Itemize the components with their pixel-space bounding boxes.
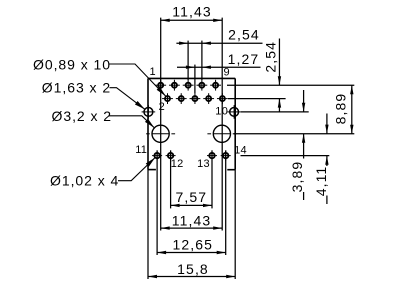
mounting hole left Ø3,2	[146, 125, 175, 142]
extension line mounting holes to right dims (y=133.8)	[234, 133, 355, 135]
extension line row2 to right dims (y=98.6)	[228, 98, 286, 100]
dimension 7,57 left arrow	[171, 204, 180, 207]
shield hole right Ø1,63	[227, 105, 241, 119]
dimension 12,65 left arrow	[157, 251, 166, 254]
dimension 12,65 line	[157, 252, 226, 254]
svg-text:12,65: 12,65	[173, 237, 214, 253]
pin hole 14 Ø1,02	[221, 151, 231, 161]
label Ø1,63 x 2 leader	[110, 88, 146, 110]
label Ø3,2 x 2 leader arrowhead	[145, 119, 154, 128]
svg-text:12: 12	[171, 158, 184, 170]
pin hole row2 #5 (pin 10) Ø0,89	[217, 93, 228, 104]
extension line body right edge down (x=235.2)	[234, 170, 236, 279]
extension line row1 pin3 (x=188.1)	[187, 41, 189, 80]
label Ø0,89 x 10 leader arrowhead	[157, 87, 166, 96]
extension line pin 12 down (x=170.6)	[170, 150, 172, 208]
dimension 12,65 right arrow	[217, 251, 226, 254]
dimension 2,54 left arrow	[179, 42, 188, 45]
dimension 11,43 bottom line	[161, 227, 223, 229]
dimension 1,27 line	[177, 66, 261, 68]
label Ø1,63 x 2 leader arrowhead	[135, 101, 145, 109]
pin hole row2 #4 (pin 8) Ø0,89	[203, 93, 214, 104]
pin hole row2 #2 (pin 4) Ø0,89	[176, 93, 187, 104]
dimension 11,43 top left arrow	[161, 19, 170, 22]
extension line pin 13 down (x=212.0)	[211, 150, 213, 208]
svg-text:3,89: 3,89	[289, 161, 305, 193]
shield hole left Ø1,63	[142, 105, 156, 119]
dimension 1,27 left arrow	[186, 66, 195, 69]
pin hole 11 Ø1,02	[152, 151, 162, 161]
svg-text:9: 9	[223, 66, 229, 78]
connector body outline bottom-right step	[227, 169, 235, 171]
pin hole 13 Ø1,02	[207, 151, 217, 161]
dimension 2,54 right arrow	[202, 42, 211, 45]
extension line pin1 / left mounting hole (x=160.7)	[160, 18, 162, 231]
dimension 4,11 lower arrow line	[326, 156, 328, 166]
extension line row2 pin (x=194.9)	[194, 65, 196, 94]
dimension 11,43 top right arrow	[213, 19, 222, 22]
dimension 3,89 upper arrow	[302, 103, 305, 112]
svg-text:11: 11	[135, 144, 147, 156]
dimension 8,89 top arrow	[350, 85, 353, 94]
dimension 2,54 line	[176, 42, 262, 44]
extension line pin10 / right mounting hole (x=222.2)	[221, 18, 223, 231]
dimension 11,43 bottom left arrow	[161, 226, 170, 229]
mounting hole right Ø3,2	[207, 125, 236, 142]
pin hole row1 #4 (pin 7) Ø0,89	[196, 80, 207, 91]
extension line pin 11 down (x=157.1)	[156, 150, 158, 255]
pin hole row1 #5 (pin 9) Ø0,89	[210, 80, 221, 91]
svg-text:13: 13	[197, 158, 210, 170]
dimension 4,11 tail below text	[326, 196, 328, 205]
dimension 8,89 bottom arrow	[350, 125, 353, 134]
extension line shield hole to right dims (y=111.9)	[241, 111, 309, 113]
extension line body left edge down (x=148)	[147, 170, 149, 279]
dimension 7,57 line	[171, 204, 212, 206]
dimension 4,11 upper arrow line	[326, 114, 328, 134]
svg-text:Ø1,63 x 2: Ø1,63 x 2	[42, 79, 111, 95]
svg-text:Ø0,89 x 10: Ø0,89 x 10	[33, 56, 111, 72]
dimension 2,54 vertical upper arrow line	[278, 39, 280, 86]
dimension 15,8 left arrow	[148, 275, 157, 278]
extension line row1 pin4 (x=201.9)	[201, 41, 203, 80]
pin hole row1 #3 (pin 5) Ø0,89	[183, 80, 194, 91]
svg-text:1: 1	[150, 66, 156, 78]
label Ø1,02 x 4 leader arrowhead	[146, 158, 155, 167]
extension line pins 11-14 to right dims (y=155.6)	[241, 155, 330, 157]
pin hole row2 #3 (pin 6) Ø0,89	[190, 93, 201, 104]
svg-text:4,11: 4,11	[313, 166, 329, 197]
extension line row1 to right dims (y=85.2)	[227, 84, 354, 86]
svg-text:7,57: 7,57	[175, 189, 207, 205]
svg-text:2,54: 2,54	[262, 41, 278, 73]
connector body outline top edge	[148, 77, 235, 79]
dimension 4,11 lower arrow	[325, 156, 328, 165]
svg-text:15,8: 15,8	[177, 261, 209, 277]
svg-text:2,54: 2,54	[228, 27, 260, 43]
connector body outline right edge	[234, 78, 236, 169]
connector body outline bottom-left step	[148, 169, 156, 171]
svg-text:10: 10	[215, 105, 228, 117]
dimension 11,43 bottom right arrow	[213, 226, 222, 229]
pin hole row2 #1 (pin 2) Ø0,89	[162, 93, 173, 104]
dimension 3,89 lower arrow	[302, 134, 305, 143]
label Ø3,2 x 2 leader	[109, 116, 154, 128]
dimension 2,54 vertical lower arrow line	[278, 99, 280, 112]
dimension 1,27 right arrow	[202, 66, 211, 69]
dimension 2,54 vertical upper arrow	[278, 76, 281, 85]
dimension 3,89 upper arrow line	[303, 90, 305, 112]
dimension 3,89 lower arrow line	[303, 134, 305, 159]
svg-text:Ø1,02 x 4: Ø1,02 x 4	[50, 173, 119, 189]
dimension 15,8 line	[148, 276, 235, 278]
dimension 8,89 line	[351, 85, 353, 134]
svg-text:14: 14	[234, 144, 247, 156]
dimension 15,8 right arrow	[226, 275, 235, 278]
pin hole row1 #1 (pin 1) Ø0,89	[155, 80, 166, 91]
pin hole row1 #2 (pin 3) Ø0,89	[169, 80, 180, 91]
dimension 4,11 upper arrow	[325, 125, 328, 134]
svg-text:Ø3,2 x 2: Ø3,2 x 2	[52, 108, 113, 124]
dimension 7,57 right arrow	[203, 204, 212, 207]
label Ø0,89 x 10 leader	[109, 64, 166, 96]
dimension 2,54 vertical lower arrow	[278, 99, 281, 108]
svg-text:8,89: 8,89	[332, 93, 348, 125]
label Ø1,02 x 4 leader	[118, 158, 155, 181]
pin hole 12 Ø1,02	[166, 151, 176, 161]
dimension 11,43 top line	[161, 19, 223, 21]
svg-text:1,27: 1,27	[228, 51, 260, 67]
extension line pin 14 down (x=225.7)	[225, 150, 227, 255]
dimension 3,89 tail below text	[303, 192, 305, 200]
svg-text:11,43: 11,43	[172, 3, 212, 19]
svg-text:2: 2	[159, 101, 165, 113]
connector body outline left edge	[147, 78, 149, 169]
svg-text:11,43: 11,43	[172, 212, 212, 228]
